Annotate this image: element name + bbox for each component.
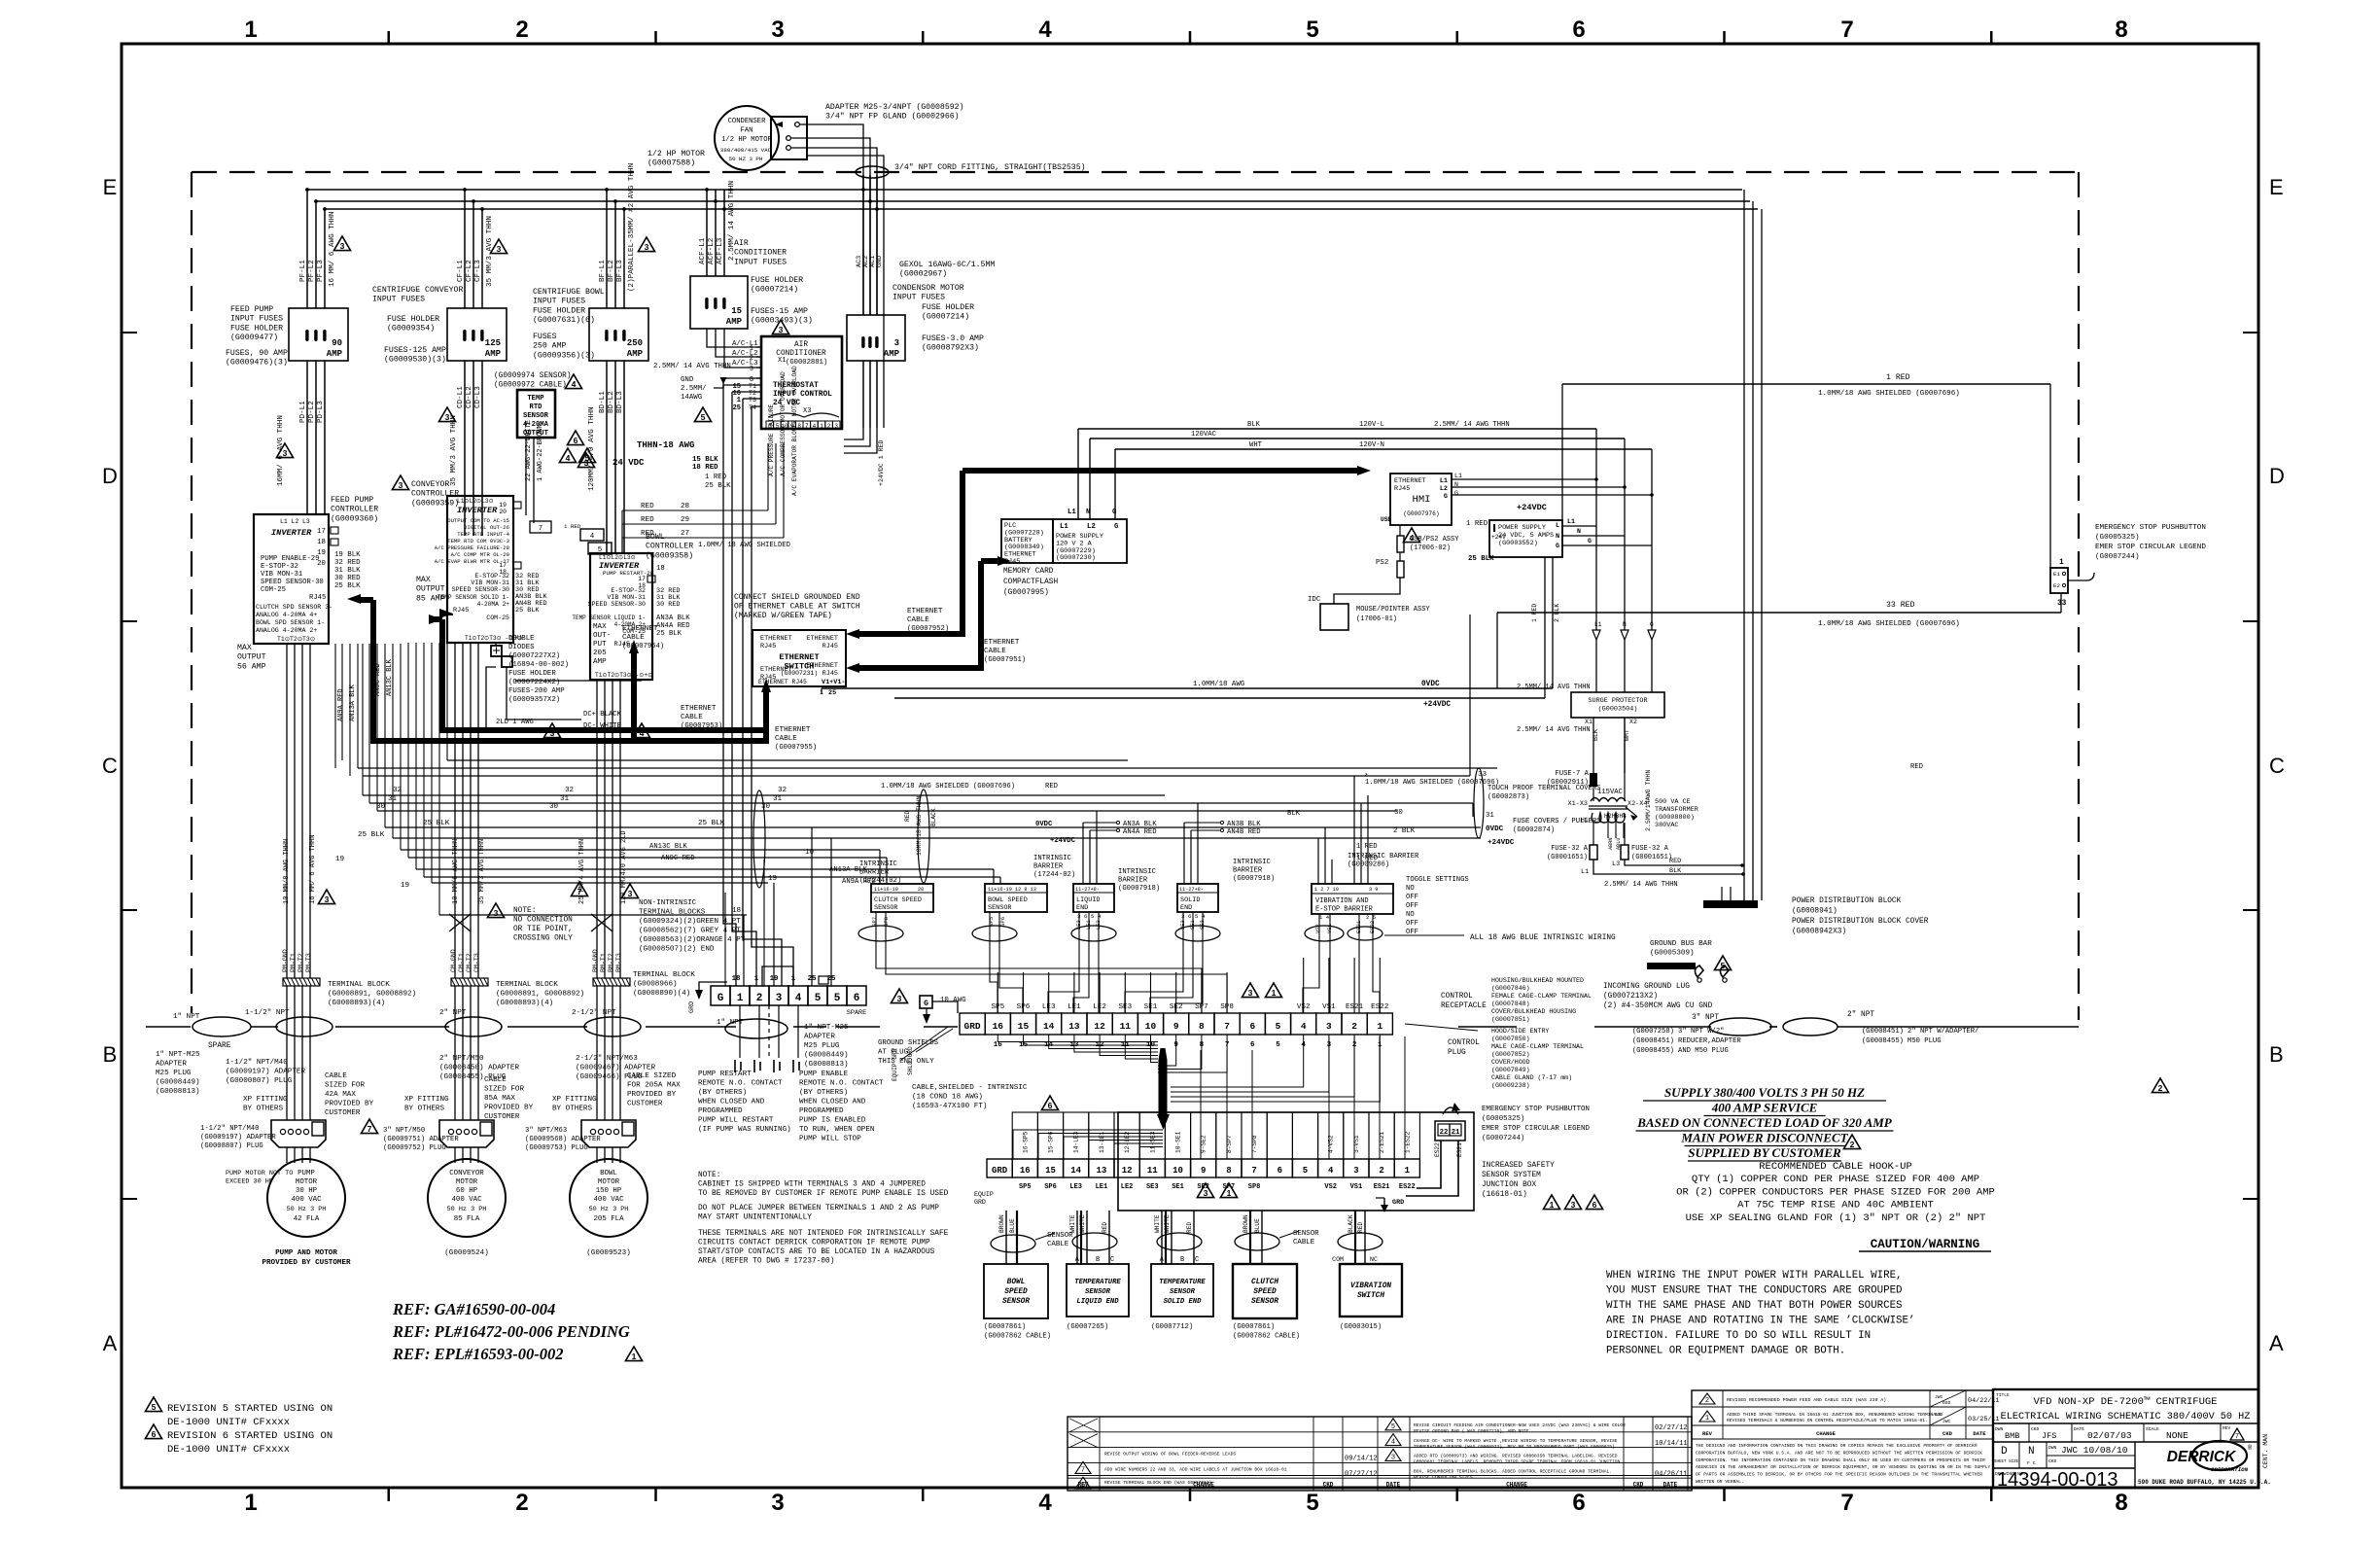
svg-text:CKD: CKD bbox=[1942, 1430, 1953, 1437]
control transformer T1 bbox=[1568, 718, 1698, 850]
fuse holder F5 3A condensor motor bbox=[847, 175, 905, 428]
svg-text:RED: RED bbox=[1102, 1222, 1108, 1233]
svg-text:PROVIDED BY: PROVIDED BY bbox=[325, 1101, 374, 1108]
condenser fan terminal box bbox=[771, 117, 807, 159]
svg-text:6: 6 bbox=[1572, 17, 1585, 43]
svg-text:OF ETHERNET CABLE AT SWITCH: OF ETHERNET CABLE AT SWITCH bbox=[734, 603, 860, 612]
svg-text:2.5MM/ 14 AWG THHN: 2.5MM/ 14 AWG THHN bbox=[1434, 421, 1510, 429]
svg-text:2: 2 bbox=[1379, 1166, 1383, 1176]
svg-text:PROVIDED BY: PROVIDED BY bbox=[627, 1091, 677, 1099]
equip grd shld grd labels bbox=[892, 1027, 953, 1081]
svg-text:13: 13 bbox=[1068, 1021, 1080, 1032]
svg-text:1-ES22: 1-ES22 bbox=[1404, 1131, 1411, 1153]
svg-text:120V-L: 120V-L bbox=[1359, 421, 1384, 429]
svg-text:BLACK: BLACK bbox=[930, 808, 937, 826]
svg-text:MALE CAGE-CLAMP TERMINAL: MALE CAGE-CLAMP TERMINAL bbox=[1491, 1043, 1584, 1050]
vibration and e-stop barrier bbox=[1312, 843, 1469, 936]
svg-text:AN9C RED: AN9C RED bbox=[661, 855, 695, 862]
svg-text:TERMINAL BLOCK: TERMINAL BLOCK bbox=[328, 981, 390, 989]
svg-text:TEMPERATURE SENSOR (WAS G00009: TEMPERATURE SENSOR (WAS G0000973), REV B… bbox=[1414, 1444, 1615, 1450]
svg-text:CONDITIONER: CONDITIONER bbox=[734, 249, 787, 258]
svg-text:E: E bbox=[103, 175, 118, 199]
svg-text:NO: NO bbox=[1406, 911, 1415, 919]
svg-text:TERMINAL BLOCKS: TERMINAL BLOCKS bbox=[639, 909, 706, 917]
svg-text:ACF-L1: ACF-L1 bbox=[699, 237, 707, 264]
svg-text:EQUIP: EQUIP bbox=[974, 1191, 994, 1198]
svg-text:PUT: PUT bbox=[593, 641, 607, 649]
svg-text:50 HZ 3 PH: 50 HZ 3 PH bbox=[729, 156, 763, 162]
wire labels CD-L1 CD-L2 CD-L3 bbox=[450, 386, 482, 486]
warning triangle 7 bowl bundle bbox=[571, 882, 587, 896]
svg-text:G: G bbox=[717, 993, 724, 1004]
svg-text:(G0007848): (G0007848) bbox=[1491, 1001, 1530, 1007]
svg-text:10: 10 bbox=[1145, 1021, 1157, 1032]
warning triangle 3 feed bbox=[333, 236, 350, 251]
svg-text:WHITE: WHITE bbox=[1154, 1214, 1161, 1233]
svg-text:REVISE CIRCUIT FEEDING AIR CON: REVISE CIRCUIT FEEDING AIR CONDITIONER-N… bbox=[1414, 1422, 1626, 1428]
svg-text:VFD NON-XP DE-7200™ CENTRIFUGE: VFD NON-XP DE-7200™ CENTRIFUGE bbox=[2033, 1396, 2217, 1408]
svg-text:JWC 10/08/10: JWC 10/08/10 bbox=[2061, 1445, 2128, 1456]
svg-text:E1: E1 bbox=[2053, 571, 2060, 578]
NPT 1 ellipse control bbox=[717, 1019, 787, 1038]
svg-text:50 Hz 3 PH: 50 Hz 3 PH bbox=[589, 1206, 629, 1213]
svg-text:CABINET IS SHIPPED WITH TERMIN: CABINET IS SHIPPED WITH TERMINALS 3 AND … bbox=[698, 1181, 926, 1189]
svg-text:A/C PRESSURE FAILURE-28: A/C PRESSURE FAILURE-28 bbox=[435, 544, 509, 551]
svg-text:ADD WIRE NUMBERS 22 AND 33, AD: ADD WIRE NUMBERS 22 AND 33, ADD WIRE LAB… bbox=[1104, 1466, 1287, 1472]
svg-text:25 BLK: 25 BLK bbox=[334, 582, 361, 590]
svg-text:PUMP RESTART-28: PUMP RESTART-28 bbox=[603, 570, 654, 577]
power supply L1 N G feed wires bbox=[1067, 429, 1117, 519]
svg-text:NONE: NONE bbox=[2166, 1430, 2188, 1441]
label all 18 AWG blue intrinsic bbox=[1384, 934, 1616, 942]
svg-text:25 BLK: 25 BLK bbox=[1468, 555, 1494, 563]
svg-text:10 MM/6 AWG THHN: 10 MM/6 AWG THHN bbox=[452, 839, 460, 904]
emergency stop terminal 22 21 bbox=[1406, 1103, 1465, 1196]
svg-text:35 MM/3 AVG THHN: 35 MM/3 AVG THHN bbox=[450, 415, 458, 486]
svg-text:DC+ BLACK: DC+ BLACK bbox=[583, 711, 622, 719]
barrier shield ovals bbox=[858, 926, 1382, 941]
svg-text:A/C-L1: A/C-L1 bbox=[732, 340, 758, 348]
svg-text:SP8: SP8 bbox=[1248, 1183, 1261, 1191]
svg-text:25 BLK: 25 BLK bbox=[358, 831, 385, 839]
svg-text:3: 3 bbox=[771, 1490, 784, 1516]
svg-text:(G0001651): (G0001651) bbox=[1547, 854, 1588, 861]
svg-text:RED: RED bbox=[1910, 763, 1923, 771]
svg-text:1 RED: 1 RED bbox=[1886, 373, 1910, 382]
svg-text:THESE TERMINALS ARE NOT INTEND: THESE TERMINALS ARE NOT INTENDED FOR INT… bbox=[698, 1230, 949, 1238]
svg-text:2.5MM/ 14 AWG THHN: 2.5MM/ 14 AWG THHN bbox=[728, 181, 736, 261]
svg-text:DATE: DATE bbox=[1663, 1482, 1678, 1489]
svg-text:B: B bbox=[1096, 1256, 1100, 1264]
svg-text:CONTROLLER: CONTROLLER bbox=[646, 543, 693, 551]
svg-text:(G0008800): (G0008800) bbox=[1655, 814, 1695, 822]
svg-text:1" NPT-M25: 1" NPT-M25 bbox=[804, 1024, 849, 1032]
svg-text:HOUSING/BULKHEAD MOUNTED: HOUSING/BULKHEAD MOUNTED bbox=[1491, 977, 1584, 984]
svg-text:3: 3 bbox=[779, 325, 784, 334]
svg-text:SP6: SP6 bbox=[1044, 1183, 1057, 1191]
svg-text:FEED PUMP: FEED PUMP bbox=[331, 496, 373, 505]
svg-text:YOU MUST ENSURE THAT THE CONDU: YOU MUST ENSURE THAT THE CONDUCTORS ARE … bbox=[1606, 1285, 1903, 1297]
svg-text:RJ45: RJ45 bbox=[309, 594, 326, 602]
svg-text:NO CONNECTION: NO CONNECTION bbox=[513, 917, 573, 925]
svg-text:1.0MM/18 AWG SHIELDED (G000769: 1.0MM/18 AWG SHIELDED (G0007696) bbox=[1818, 620, 1960, 628]
svg-text:27: 27 bbox=[681, 530, 689, 538]
svg-text:T4: T4 bbox=[749, 404, 756, 411]
svg-text:REDUCER,ADAPTER: REDUCER,ADAPTER bbox=[1678, 1037, 1741, 1045]
svg-text:BLUE: BLUE bbox=[1254, 1218, 1261, 1233]
svg-text:F C: F C bbox=[2027, 1460, 2036, 1466]
svg-text:AN4B RED: AN4B RED bbox=[1227, 828, 1261, 836]
svg-text:7: 7 bbox=[805, 423, 809, 430]
HMI box bbox=[1381, 474, 1452, 525]
svg-text:5: 5 bbox=[152, 1402, 157, 1412]
svg-text:REV: REV bbox=[2222, 1425, 2231, 1431]
svg-text:CHANGE: CHANGE bbox=[1193, 1482, 1214, 1489]
svg-text:4: 4 bbox=[1038, 17, 1052, 43]
svg-text:MOTOR: MOTOR bbox=[296, 1178, 318, 1186]
svg-text:1: 1 bbox=[737, 993, 744, 1004]
svg-text:AN13A BLK: AN13A BLK bbox=[349, 684, 357, 721]
svg-text:(G0007712): (G0007712) bbox=[1151, 1323, 1193, 1331]
svg-text:RJ45: RJ45 bbox=[760, 643, 776, 650]
wire labels AC3 AC2 AC1 GND bbox=[856, 256, 884, 267]
svg-text:500 VA CE: 500 VA CE bbox=[1655, 798, 1691, 806]
svg-text:ETHERNET: ETHERNET bbox=[907, 608, 943, 615]
svg-text:19: 19 bbox=[401, 882, 410, 890]
svg-text:RECOMMENDED CABLE HOOK-UP: RECOMMENDED CABLE HOOK-UP bbox=[1759, 1161, 1912, 1173]
svg-text:CUSTOMER: CUSTOMER bbox=[627, 1101, 663, 1108]
warning triangle 3 pump bundle bbox=[318, 890, 334, 904]
svg-text:380/400/415 VAC: 380/400/415 VAC bbox=[720, 147, 772, 154]
svg-text:CD-L1: CD-L1 bbox=[457, 386, 465, 408]
svg-text:(16593-47X100 FT): (16593-47X100 FT) bbox=[912, 1103, 987, 1110]
svg-text:G: G bbox=[1444, 493, 1448, 501]
intrinsic barrier solid end bbox=[1177, 859, 1275, 930]
svg-text:D: D bbox=[2269, 464, 2285, 488]
svg-text:MAX: MAX bbox=[593, 623, 607, 631]
svg-text:400 VAC: 400 VAC bbox=[291, 1196, 322, 1204]
svg-text:PROVIDED BY CUSTOMER: PROVIDED BY CUSTOMER bbox=[262, 1259, 351, 1267]
svg-text:DIRECTION. FAILURE TO DO SO W: DIRECTION. FAILURE TO DO SO WILL RESULT … bbox=[1606, 1330, 1871, 1342]
svg-text:8-SP7: 8-SP7 bbox=[1226, 1135, 1233, 1153]
svg-text:ETHERNET: ETHERNET bbox=[760, 666, 792, 674]
ethernet cable G0007952 switch to HMI bbox=[846, 466, 1371, 639]
svg-text:33 RED: 33 RED bbox=[1886, 601, 1915, 610]
double diodes D1 D2 bbox=[491, 644, 512, 681]
svg-text:(G0008942X3): (G0008942X3) bbox=[1792, 929, 1846, 936]
svg-text:(IF PUMP WAS RUNNING): (IF PUMP WAS RUNNING) bbox=[698, 1126, 791, 1134]
svg-text:2.5MM/ 14 AVG THHN: 2.5MM/ 14 AVG THHN bbox=[1517, 726, 1591, 734]
svg-text:(MARKED W/GREEN TAPE): (MARKED W/GREEN TAPE) bbox=[734, 612, 832, 620]
svg-text:04/22/11: 04/22/11 bbox=[1968, 1397, 2000, 1405]
svg-text:WHEN CLOSED AND: WHEN CLOSED AND bbox=[698, 1099, 765, 1106]
intrinsic barrier bowl speed bbox=[985, 855, 1075, 927]
svg-text:REVISE OUTPUT WIRING OF BOWL F: REVISE OUTPUT WIRING OF BOWL FEEDER-REVE… bbox=[1104, 1452, 1236, 1457]
svg-text:SENSOR: SENSOR bbox=[988, 904, 1011, 912]
svg-text:ETHERNET: ETHERNET bbox=[806, 662, 838, 670]
svg-text:RJ45: RJ45 bbox=[1394, 485, 1410, 493]
svg-text:B: B bbox=[103, 1042, 118, 1067]
svg-text:CM-T3: CM-T3 bbox=[473, 953, 480, 972]
svg-text:42 FLA: 42 FLA bbox=[294, 1215, 320, 1223]
svg-text:PM-GND: PM-GND bbox=[282, 949, 289, 972]
svg-text:(G0009974 SENSOR): (G0009974 SENSOR) bbox=[494, 372, 572, 380]
svg-text:OUTPUT COM TO AC-15: OUTPUT COM TO AC-15 bbox=[447, 517, 509, 524]
svg-text:(G0008890)(4): (G0008890)(4) bbox=[633, 990, 690, 998]
svg-text:CM-T1: CM-T1 bbox=[458, 953, 465, 972]
svg-text:19 BLK: 19 BLK bbox=[334, 551, 361, 559]
svg-text:14-LE3: 14-LE3 bbox=[1073, 1131, 1080, 1153]
svg-text:2.5MM/14AWG THHN: 2.5MM/14AWG THHN bbox=[1645, 770, 1652, 831]
svg-text:07/27/12: 07/27/12 bbox=[1345, 1470, 1378, 1478]
svg-text:12-LE2: 12-LE2 bbox=[1124, 1131, 1131, 1153]
svg-text:ELECTRICAL WIRING SCHEMATIC 38: ELECTRICAL WIRING SCHEMATIC 380/400V 50 … bbox=[2001, 1411, 2251, 1422]
svg-text:(G0008562)(7) GREY 4 PT: (G0008562)(7) GREY 4 PT bbox=[639, 928, 741, 935]
svg-text:RED: RED bbox=[641, 530, 654, 538]
power distribution block bbox=[1703, 887, 1929, 936]
svg-text:E2: E2 bbox=[2053, 582, 2060, 589]
warning triangle 7 fitting bbox=[361, 1119, 377, 1134]
svg-text:OFF: OFF bbox=[1406, 894, 1418, 901]
label 10MM/18 AWG shielded band bbox=[881, 763, 1923, 820]
svg-text:VIB MON-31: VIB MON-31 bbox=[261, 571, 302, 579]
svg-text:1-1/2" NPT/M40: 1-1/2" NPT/M40 bbox=[200, 1125, 259, 1133]
svg-text:FUSE HOLDER: FUSE HOLDER bbox=[387, 315, 439, 324]
svg-text:XP FITTING: XP FITTING bbox=[552, 1096, 597, 1104]
labels 32 31 30 25 BLK left bbox=[335, 787, 815, 915]
wires below G strip bbox=[740, 1005, 798, 1058]
svg-text:5: 5 bbox=[834, 993, 841, 1004]
svg-text:12: 12 bbox=[1094, 1021, 1105, 1032]
svg-text:2.5MM/ 14 AVG THHN: 2.5MM/ 14 AVG THHN bbox=[653, 363, 731, 370]
svg-text:E: E bbox=[2269, 175, 2284, 199]
ethernet switch bbox=[752, 630, 846, 697]
svg-text:DSD: DSD bbox=[1935, 1412, 1943, 1418]
svg-text:7: 7 bbox=[367, 1124, 372, 1134]
svg-text:(G0007214): (G0007214) bbox=[922, 312, 969, 322]
svg-text:(G0000807) PLUG: (G0000807) PLUG bbox=[226, 1077, 293, 1085]
svg-text:FUSE-7 A: FUSE-7 A bbox=[1555, 770, 1589, 778]
svg-text:85 FLA: 85 FLA bbox=[454, 1215, 480, 1223]
svg-text:5: 5 bbox=[1303, 1166, 1308, 1176]
svg-text:(G0009357X2): (G0009357X2) bbox=[508, 696, 560, 704]
svg-text:NC: NC bbox=[1370, 1256, 1378, 1263]
svg-text:3: 3 bbox=[340, 241, 345, 251]
svg-text:(G0008813): (G0008813) bbox=[156, 1088, 200, 1096]
ethernet cable G0007953 inverter2 to switch bbox=[429, 614, 766, 730]
svg-text:(G0008941): (G0008941) bbox=[1792, 908, 1837, 916]
A/C bottom terminal row X3 bbox=[766, 413, 840, 430]
svg-text:REVISION 6 STARTED USING ON: REVISION 6 STARTED USING ON bbox=[167, 1430, 332, 1442]
svg-text:COM: COM bbox=[1332, 1256, 1344, 1263]
svg-text:USE XP SEALING GLAND FOR (1) 3: USE XP SEALING GLAND FOR (1) 3" NPT OR (… bbox=[1686, 1212, 1986, 1224]
clutch speed sensor box bbox=[1233, 1264, 1300, 1341]
svg-text:REF: PL#16472-00-006 PENDING: REF: PL#16472-00-006 PENDING bbox=[392, 1322, 630, 1341]
svg-text:(G0009360): (G0009360) bbox=[331, 513, 378, 523]
svg-text:RJ45: RJ45 bbox=[822, 670, 838, 678]
HMI pin wires bbox=[1452, 473, 1654, 497]
svg-text:(G0007995): (G0007995) bbox=[1003, 589, 1049, 597]
svg-text:15 BLK: 15 BLK bbox=[692, 456, 718, 464]
svg-text:SCALE: SCALE bbox=[2146, 1426, 2159, 1432]
svg-text:PD-L1: PD-L1 bbox=[299, 401, 307, 423]
svg-text:WHT: WHT bbox=[1249, 441, 1263, 449]
svg-text:SIZED FOR: SIZED FOR bbox=[484, 1086, 524, 1094]
NPT 2 ellipse conveyor bbox=[439, 1009, 502, 1036]
svg-text:PUMP: PUMP bbox=[297, 1170, 315, 1177]
svg-text:15-SP6: 15-SP6 bbox=[1048, 1131, 1055, 1153]
L N G arrow connectors bbox=[1592, 621, 1656, 692]
svg-text:(G0007852): (G0007852) bbox=[1491, 1051, 1530, 1058]
svg-text:3" NPT/M63: 3" NPT/M63 bbox=[525, 1127, 567, 1135]
svg-text:AN4A RED: AN4A RED bbox=[656, 622, 690, 630]
svg-text:WITH THE SAME PHASE AND THAT B: WITH THE SAME PHASE AND THAT BOTH POWER … bbox=[1606, 1300, 1903, 1312]
increased safety junction box bbox=[1118, 1112, 1474, 1211]
svg-text:0VDC: 0VDC bbox=[1035, 821, 1053, 828]
svg-text:21: 21 bbox=[1452, 1129, 1460, 1137]
svg-text:ANALOG 4-20MA 2+: ANALOG 4-20MA 2+ bbox=[256, 627, 317, 634]
svg-text:30: 30 bbox=[376, 803, 386, 811]
svg-text:BM-T2: BM-T2 bbox=[608, 953, 614, 972]
svg-text:BROWN: BROWN bbox=[998, 1214, 1005, 1233]
svg-text:1 RED: 1 RED bbox=[1356, 843, 1378, 851]
svg-text:PF-L2: PF-L2 bbox=[308, 260, 316, 282]
svg-text:CKD: CKD bbox=[1323, 1482, 1334, 1489]
sensor cable oval temp liquid bbox=[1072, 1233, 1117, 1250]
svg-text:ADAPTER: ADAPTER bbox=[156, 1061, 187, 1069]
bus tap junction dots bbox=[305, 188, 879, 211]
svg-text:LE3: LE3 bbox=[1069, 1183, 1082, 1191]
svg-text:BOWL: BOWL bbox=[600, 1170, 617, 1177]
svg-text:X1-X3: X1-X3 bbox=[1568, 800, 1588, 808]
warning triangle 3 bowl bundle bbox=[621, 884, 638, 898]
wire labels PF-L1 PF-L2 PF-L3 bbox=[299, 212, 336, 287]
svg-text:(G0008451): (G0008451) bbox=[1862, 1028, 1904, 1036]
svg-text:L1: L1 bbox=[1594, 621, 1602, 628]
svg-text:M25 PLUG: M25 PLUG bbox=[804, 1042, 840, 1050]
svg-text:PUMP ENABLE-29: PUMP ENABLE-29 bbox=[261, 555, 319, 563]
svg-text:PROVIDED BY: PROVIDED BY bbox=[484, 1105, 534, 1112]
svg-text:L1: L1 bbox=[1454, 473, 1462, 479]
svg-text:24 VDC, 5 AMPS: 24 VDC, 5 AMPS bbox=[1498, 532, 1554, 540]
svg-text:(G0008807) PLUG: (G0008807) PLUG bbox=[200, 1142, 263, 1150]
svg-text:(G0007244): (G0007244) bbox=[2095, 553, 2140, 561]
svg-text:(G0007265): (G0007265) bbox=[1067, 1323, 1108, 1331]
pump restart remote contact bbox=[735, 1060, 799, 1072]
svg-text:3: 3 bbox=[771, 17, 784, 43]
svg-text:AMP: AMP bbox=[884, 349, 900, 359]
svg-text:3: 3 bbox=[894, 338, 899, 348]
svg-text:2-1/2" NPT: 2-1/2" NPT bbox=[572, 1009, 616, 1017]
svg-text:8: 8 bbox=[2115, 17, 2127, 43]
svg-text:1" NPT: 1" NPT bbox=[173, 1013, 200, 1021]
svg-text:(18 COND 18 AWG): (18 COND 18 AWG) bbox=[912, 1094, 983, 1102]
svg-text:A/C PRESSURE FAILURE: A/C PRESSURE FAILURE bbox=[768, 404, 775, 476]
svg-text:19: 19 bbox=[499, 502, 507, 509]
svg-text:(G0002874): (G0002874) bbox=[1513, 826, 1555, 834]
svg-text:60 HP: 60 HP bbox=[456, 1187, 478, 1195]
wires into G strip bbox=[744, 827, 831, 986]
caution warning heading bbox=[1859, 1238, 1991, 1251]
svg-text:(G0007918): (G0007918) bbox=[1118, 885, 1160, 893]
svg-text:CONTROL: CONTROL bbox=[1441, 993, 1473, 1001]
svg-text:AREA (REFER TO DWG # 17237-00): AREA (REFER TO DWG # 17237-00) bbox=[698, 1258, 834, 1266]
svg-text:22: 22 bbox=[1440, 1129, 1449, 1137]
svg-text:(G0008450) ADAPTER: (G0008450) ADAPTER bbox=[439, 1065, 519, 1072]
svg-text:OR (2) COPPER CONDUCTORS PER P: OR (2) COPPER CONDUCTORS PER PHASE SIZED… bbox=[1676, 1186, 1995, 1198]
svg-text:AND M50 PLUG: AND M50 PLUG bbox=[1678, 1047, 1729, 1055]
svg-text:GRD: GRD bbox=[688, 1001, 696, 1013]
G box 10 AWG ground bbox=[920, 996, 966, 1024]
svg-text:5: 5 bbox=[1276, 1041, 1280, 1049]
control receptacle label leaders bbox=[1405, 993, 1487, 1057]
thermostat input control section bbox=[733, 382, 833, 415]
svg-text:PD-L2: PD-L2 bbox=[308, 401, 316, 423]
svg-text:ADAPTER M25-3/4NPT (G0008592): ADAPTER M25-3/4NPT (G0008592) bbox=[825, 102, 964, 112]
svg-text:INPUT FUSES: INPUT FUSES bbox=[734, 258, 787, 266]
svg-text:3/4" NPT CORD FITTING, STRAIGH: 3/4" NPT CORD FITTING, STRAIGHT(TBS2535) bbox=[894, 162, 1086, 172]
svg-text:(G0008563)(2)ORANGE 4 PT: (G0008563)(2)ORANGE 4 PT bbox=[639, 936, 746, 944]
svg-text:CONDENSOR MOTOR: CONDENSOR MOTOR bbox=[892, 284, 964, 293]
svg-text:(G0009324)(2)GREEN 4 PT: (G0009324)(2)GREEN 4 PT bbox=[639, 918, 741, 926]
svg-text:25: 25 bbox=[733, 404, 741, 412]
svg-text:16: 16 bbox=[993, 1021, 1004, 1032]
svg-text:CKD: CKD bbox=[2048, 1458, 2057, 1464]
svg-text:10 MM/8 AWG THHN: 10 MM/8 AWG THHN bbox=[283, 839, 291, 904]
svg-text:TO BE REMOVED BY CUSTOMER IF R: TO BE REMOVED BY CUSTOMER IF REMOTE PUMP… bbox=[698, 1190, 949, 1198]
svg-text:3 9: 3 9 bbox=[1369, 887, 1378, 893]
svg-text:(G0008893)(4): (G0008893)(4) bbox=[496, 1000, 553, 1007]
svg-text:(G0009359): (G0009359) bbox=[411, 498, 459, 508]
svg-text:20: 20 bbox=[918, 887, 924, 893]
svg-text:BLACK: BLACK bbox=[1347, 1214, 1354, 1233]
USB PS2 assy bbox=[1334, 525, 1459, 604]
svg-text:(G0009197) ADAPTER: (G0009197) ADAPTER bbox=[200, 1134, 276, 1141]
svg-text:2.5MM/: 2.5MM/ bbox=[681, 385, 707, 393]
svg-text:2: 2 bbox=[1850, 1140, 1855, 1149]
svg-text:11: 11 bbox=[1147, 1166, 1158, 1176]
supply text block bbox=[1636, 1085, 1894, 1161]
svg-text:RED: RED bbox=[1186, 1222, 1193, 1233]
svg-text:(BY OTHERS): (BY OTHERS) bbox=[799, 1089, 848, 1097]
svg-text:A/C-L2: A/C-L2 bbox=[732, 350, 758, 358]
svg-text:31: 31 bbox=[1486, 812, 1494, 820]
pump motor wires PM bbox=[282, 644, 320, 1070]
svg-text:BARRIER: BARRIER bbox=[859, 869, 890, 877]
svg-text:GND: GND bbox=[876, 256, 884, 267]
svg-text:5: 5 bbox=[598, 546, 603, 554]
svg-text:ACF-L3: ACF-L3 bbox=[717, 237, 724, 264]
svg-text:8: 8 bbox=[1199, 1021, 1205, 1032]
svg-text:L: L bbox=[1556, 522, 1559, 530]
condensor motor wires to A/C bbox=[844, 428, 877, 453]
svg-text:(G0005325): (G0005325) bbox=[2095, 534, 2140, 542]
svg-text:1.0MM/ 18 AWG SHIELDED: 1.0MM/ 18 AWG SHIELDED bbox=[698, 542, 790, 549]
svg-text:MAX: MAX bbox=[237, 644, 252, 652]
svg-text:MAY START UNINTENTIONALLY: MAY START UNINTENTIONALLY bbox=[698, 1214, 812, 1222]
title row dwn ckd date scale bbox=[1995, 1423, 2244, 1442]
svg-text:CORPORATION: CORPORATION bbox=[2211, 1466, 2249, 1473]
svg-text:3: 3 bbox=[1248, 988, 1253, 998]
svg-text:WHEN CLOSED AND: WHEN CLOSED AND bbox=[799, 1099, 866, 1106]
svg-text:380VAC: 380VAC bbox=[1655, 822, 1678, 829]
svg-text:REMOTE N.O. CONTACT: REMOTE N.O. CONTACT bbox=[799, 1080, 884, 1088]
svg-text:OFF: OFF bbox=[1406, 902, 1418, 910]
svg-text:90: 90 bbox=[332, 338, 342, 348]
ethernet cable G0007954 inverter2 to switch bbox=[347, 594, 769, 741]
warning triangle 1 ref bbox=[625, 1347, 642, 1361]
svg-text:ES21: ES21 bbox=[1374, 1183, 1390, 1191]
